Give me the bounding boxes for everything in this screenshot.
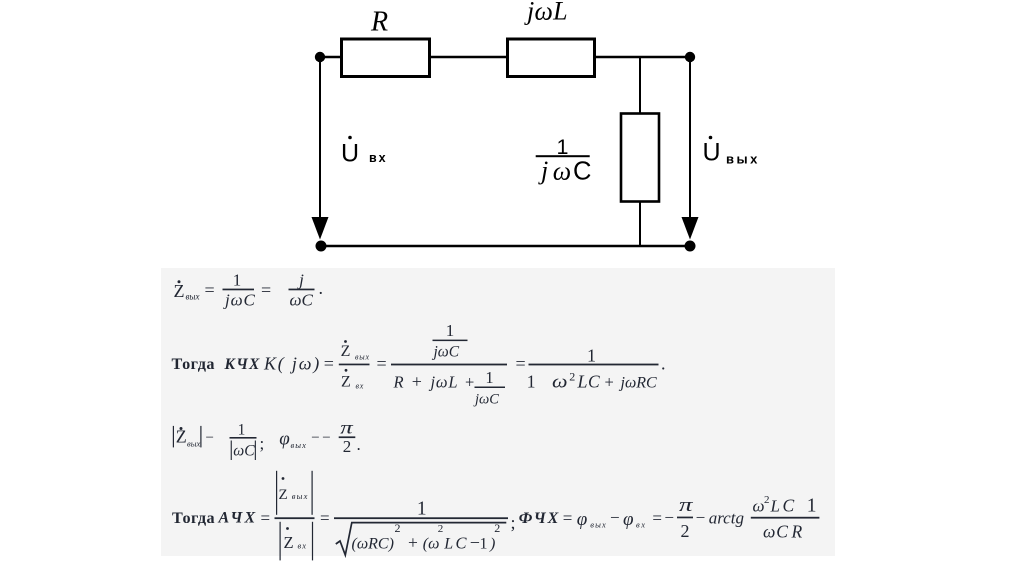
svg-text:π: π bbox=[679, 495, 693, 516]
wire (inductor to top-right node) bbox=[595, 56, 691, 59]
formula row 1: Z_out = 1/(jwC) = j/(wC) bbox=[174, 271, 324, 310]
svg-text:C: C bbox=[588, 372, 600, 392]
svg-text:−: − bbox=[206, 430, 214, 446]
svg-text:2: 2 bbox=[395, 521, 401, 535]
formula row 3: |Z_out| = 1/|wC| ; phi_out = -pi/2 bbox=[173, 418, 361, 460]
svg-text:=: = bbox=[563, 508, 573, 527]
svg-text:φ: φ bbox=[577, 509, 588, 530]
svg-text:−: − bbox=[470, 533, 480, 553]
svg-text:−: − bbox=[696, 508, 706, 527]
svg-text:.: . bbox=[319, 278, 324, 298]
formula row 4: Togda AChH = ... ; FChH = ... bbox=[172, 471, 819, 561]
wire (top-left node to resistor) bbox=[320, 56, 341, 59]
svg-text:вх: вх bbox=[298, 541, 307, 551]
svg-text:вых: вых bbox=[186, 292, 200, 302]
svg-text:(ω: (ω bbox=[423, 536, 440, 553]
svg-text:ω: ω bbox=[552, 373, 568, 393]
node C (bottom-left node) bbox=[316, 241, 327, 252]
svg-text:jωRC: jωRC bbox=[619, 375, 658, 392]
svg-text:U: U bbox=[703, 139, 721, 167]
svg-text:=: = bbox=[320, 508, 330, 527]
svg-text:вх: вх bbox=[369, 151, 388, 165]
svg-text:1: 1 bbox=[587, 346, 596, 366]
svg-text:R: R bbox=[370, 7, 388, 38]
svg-text:;: ; bbox=[511, 513, 516, 533]
svg-text:ω: ω bbox=[553, 157, 571, 186]
svg-text:АЧХ: АЧХ bbox=[218, 510, 258, 527]
svg-text:Тогда: Тогда bbox=[172, 509, 215, 527]
svg-text:2: 2 bbox=[764, 494, 770, 506]
svg-text:;: ; bbox=[260, 434, 265, 453]
inductor L (impedance box) bbox=[508, 39, 595, 77]
svg-text:вх: вх bbox=[356, 382, 365, 391]
svg-text:ωC: ωC bbox=[233, 443, 255, 460]
wire (capacitor to bottom wire) bbox=[639, 202, 641, 247]
svg-text:Z: Z bbox=[341, 343, 351, 360]
svg-text:1: 1 bbox=[485, 368, 493, 387]
svg-text:=: = bbox=[377, 354, 387, 374]
svg-text:=: = bbox=[261, 508, 271, 527]
svg-text:2: 2 bbox=[343, 437, 352, 456]
label U_vx dot bbox=[348, 136, 352, 140]
svg-text:−: − bbox=[311, 430, 319, 446]
wire (resistor to inductor) bbox=[430, 56, 508, 59]
svg-text:.: . bbox=[661, 354, 666, 374]
svg-text:.: . bbox=[357, 435, 361, 454]
svg-text:R: R bbox=[791, 522, 803, 542]
svg-text:Z: Z bbox=[284, 533, 294, 552]
svg-text:1: 1 bbox=[233, 271, 242, 290]
svg-text:ωC: ωC bbox=[290, 291, 314, 310]
svg-text:+: + bbox=[412, 372, 422, 392]
svg-text:C: C bbox=[456, 534, 468, 553]
svg-text:+: + bbox=[605, 373, 614, 392]
svg-text:+: + bbox=[408, 533, 418, 553]
node B (top-right output node) bbox=[685, 52, 695, 62]
svg-text:2: 2 bbox=[438, 523, 444, 535]
wire (left branch vertical) bbox=[319, 57, 321, 228]
svg-text:1: 1 bbox=[807, 496, 817, 517]
svg-text:L: L bbox=[770, 497, 780, 516]
arrow (input voltage direction) bbox=[312, 217, 329, 240]
capacitor C (impedance box) bbox=[621, 114, 659, 202]
wire (junction down to capacitor) bbox=[639, 57, 641, 113]
svg-text:Z: Z bbox=[279, 487, 288, 503]
svg-text:1: 1 bbox=[446, 321, 455, 340]
svg-text:j: j bbox=[297, 271, 304, 290]
svg-text:−: − bbox=[610, 508, 620, 527]
label U_vyx dot bbox=[709, 136, 713, 140]
svg-text:φ: φ bbox=[279, 429, 290, 450]
svg-text:R: R bbox=[393, 373, 404, 392]
svg-text:=: = bbox=[516, 354, 526, 374]
svg-text:1: 1 bbox=[238, 422, 246, 439]
svg-text:=: = bbox=[205, 280, 215, 300]
svg-text:1: 1 bbox=[480, 536, 488, 553]
svg-text:вых: вых bbox=[590, 520, 607, 530]
svg-text:C: C bbox=[776, 522, 788, 542]
formula row 2: Togda KChH K(jw) = ... bbox=[172, 321, 666, 408]
svg-text:1: 1 bbox=[527, 372, 536, 392]
svg-text:L: L bbox=[443, 536, 453, 553]
svg-text:): ) bbox=[489, 536, 495, 553]
svg-text:U: U bbox=[341, 140, 359, 168]
svg-text:=: = bbox=[261, 280, 271, 300]
svg-text:L: L bbox=[577, 372, 588, 392]
svg-text:2: 2 bbox=[569, 370, 575, 384]
svg-text:вх: вх bbox=[636, 520, 646, 530]
svg-text:КЧХ: КЧХ bbox=[224, 356, 261, 373]
svg-text:вых: вых bbox=[355, 353, 370, 362]
svg-text:π: π bbox=[340, 418, 354, 438]
svg-text:Z: Z bbox=[341, 374, 351, 391]
svg-text:jωC: jωC bbox=[473, 392, 499, 408]
svg-text:=: = bbox=[652, 508, 662, 527]
svg-text:вых: вых bbox=[187, 439, 200, 449]
svg-text:вых: вых bbox=[292, 491, 309, 501]
arrow (output voltage direction) bbox=[682, 217, 699, 240]
svg-text:вых: вых bbox=[291, 440, 308, 450]
svg-text:Z: Z bbox=[174, 281, 185, 301]
svg-text:ФЧХ: ФЧХ bbox=[519, 510, 560, 527]
svg-text:(ωRC): (ωRC) bbox=[352, 536, 394, 553]
wire (bottom return wire) bbox=[321, 245, 690, 248]
svg-text:jωC: jωC bbox=[223, 291, 256, 310]
formula background panel bbox=[161, 268, 835, 556]
svg-text:jωL: jωL bbox=[524, 0, 568, 26]
svg-text:+: + bbox=[465, 373, 474, 392]
svg-text:arctg: arctg bbox=[709, 509, 744, 528]
svg-text:K( jω): K( jω) bbox=[263, 354, 321, 375]
svg-text:C: C bbox=[573, 158, 591, 186]
svg-text:φ: φ bbox=[623, 509, 634, 530]
label 1/jwC bar bbox=[536, 155, 590, 157]
svg-text:−: − bbox=[664, 508, 674, 527]
svg-text:jωC: jωC bbox=[432, 344, 460, 361]
svg-text:1: 1 bbox=[417, 499, 427, 520]
svg-text:−: − bbox=[322, 430, 330, 446]
node D (bottom-right node) bbox=[685, 241, 696, 252]
svg-text:вых: вых bbox=[726, 152, 760, 167]
svg-text:Тогда: Тогда bbox=[172, 355, 216, 373]
node A (top-left input node) bbox=[315, 52, 325, 62]
wire (right branch vertical) bbox=[689, 57, 691, 228]
svg-text:2: 2 bbox=[494, 521, 500, 535]
svg-text:=: = bbox=[324, 354, 334, 374]
svg-text:jωL: jωL bbox=[429, 373, 459, 392]
svg-text:j: j bbox=[538, 156, 548, 185]
svg-text:2: 2 bbox=[681, 521, 690, 541]
svg-text:ω: ω bbox=[753, 497, 765, 516]
svg-text:C: C bbox=[783, 496, 795, 516]
resistor R bbox=[342, 39, 430, 77]
svg-text:ω: ω bbox=[763, 522, 775, 542]
